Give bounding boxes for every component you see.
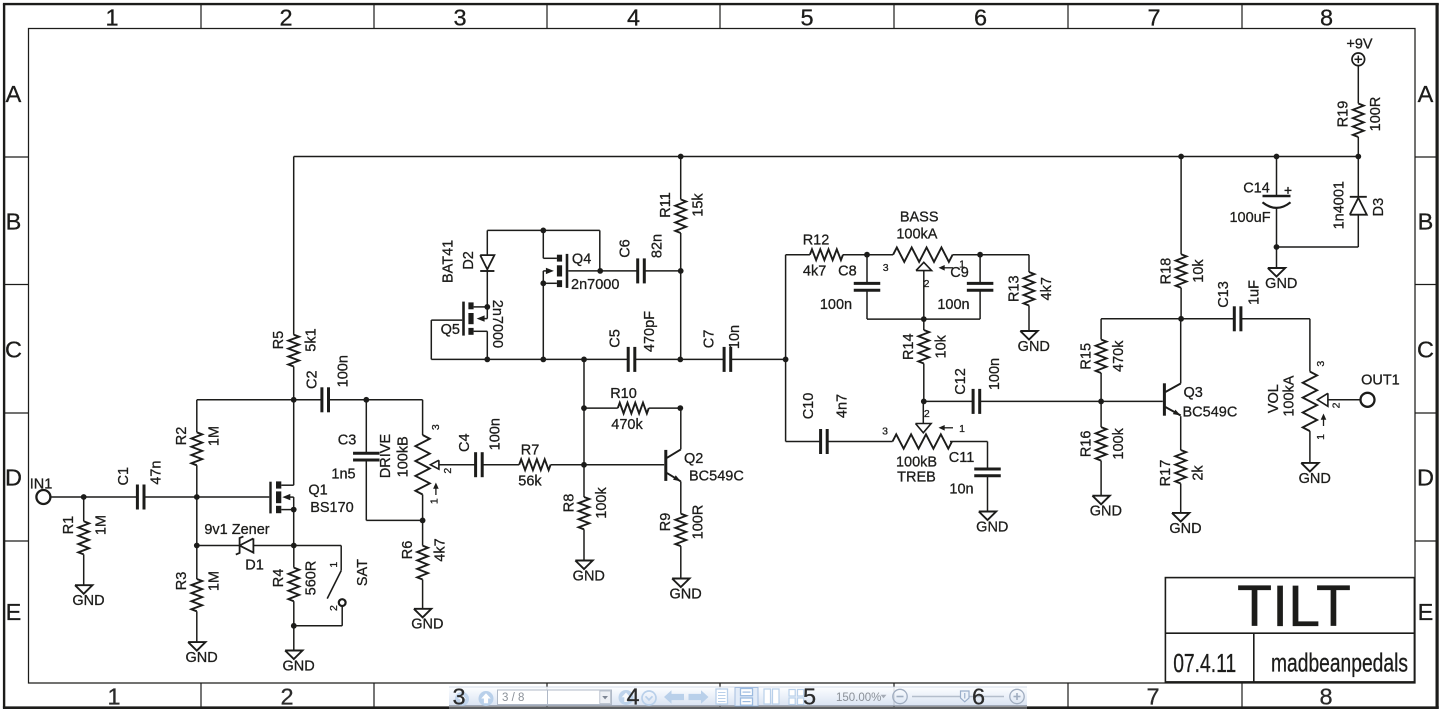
svg-text:GND: GND bbox=[669, 586, 701, 602]
wire C11 branch bbox=[987, 442, 989, 512]
svg-text:4n7: 4n7 bbox=[835, 394, 851, 418]
ground bbox=[1018, 331, 1050, 355]
ground bbox=[185, 642, 217, 666]
svg-text:madbeanpedals: madbeanpedals bbox=[1271, 647, 1408, 677]
svg-text:1: 1 bbox=[105, 5, 118, 31]
wire R4 bottom to ground bbox=[293, 626, 295, 651]
svg-text:100n: 100n bbox=[487, 418, 503, 450]
node rail right corner dot bbox=[1355, 154, 1361, 160]
wire main signal bus bbox=[431, 358, 785, 360]
wire down to zener row bbox=[196, 497, 198, 546]
capacitor C6 82n bbox=[617, 234, 665, 284]
node R10 dots bbox=[581, 405, 683, 411]
potentiometer BASS 100kA bbox=[867, 210, 980, 320]
svg-text:2n7000: 2n7000 bbox=[489, 300, 505, 348]
svg-text:C: C bbox=[5, 337, 22, 363]
node C2 left dot bbox=[291, 397, 297, 403]
resistor R5 5k1 bbox=[271, 157, 319, 400]
svg-text:3: 3 bbox=[452, 683, 465, 709]
svg-text:GND: GND bbox=[1169, 521, 1201, 537]
svg-text:C10: C10 bbox=[801, 393, 817, 420]
svg-text:R9: R9 bbox=[658, 513, 674, 532]
svg-text:R2: R2 bbox=[174, 427, 190, 446]
potentiometer DRIVE 100kB bbox=[378, 424, 476, 520]
capacitor C3 1n5 bbox=[331, 432, 379, 482]
svg-text:47n: 47n bbox=[149, 461, 165, 485]
svg-text:1: 1 bbox=[328, 562, 340, 568]
resistor R14 10k bbox=[901, 319, 949, 401]
svg-text:OUT1: OUT1 bbox=[1361, 372, 1400, 388]
capacitor C5 470pF bbox=[607, 311, 658, 372]
svg-text:2: 2 bbox=[1331, 402, 1343, 408]
svg-text:E: E bbox=[6, 599, 22, 625]
svg-text:150.00%: 150.00% bbox=[836, 692, 881, 704]
svg-text:7: 7 bbox=[1146, 683, 1159, 709]
node Q5 source bus dot bbox=[484, 357, 490, 363]
svg-text:C6: C6 bbox=[617, 239, 633, 258]
resistor R9 100R bbox=[658, 505, 706, 579]
ground bbox=[1265, 268, 1297, 292]
svg-text:470k: 470k bbox=[611, 417, 643, 433]
svg-text:R13: R13 bbox=[1006, 275, 1022, 302]
svg-text:C2: C2 bbox=[304, 370, 320, 389]
ground bbox=[411, 609, 443, 633]
resistor R2 1M bbox=[174, 400, 222, 497]
node R15 bottom dot bbox=[1098, 399, 1104, 405]
ground bbox=[1090, 496, 1122, 520]
ground bbox=[282, 651, 314, 675]
resistor R3 1M bbox=[174, 546, 222, 643]
potentiometer TREB 100kB bbox=[882, 401, 987, 485]
svg-text:Q2: Q2 bbox=[684, 451, 703, 467]
wire base column bbox=[583, 359, 585, 464]
svg-text:3: 3 bbox=[883, 262, 889, 274]
svg-text:4k7: 4k7 bbox=[1039, 277, 1055, 300]
svg-text:Q5: Q5 bbox=[441, 322, 460, 338]
svg-text:15k: 15k bbox=[691, 193, 707, 217]
svg-text:C14: C14 bbox=[1243, 180, 1270, 196]
svg-text:82n: 82n bbox=[650, 234, 666, 258]
svg-text:R6: R6 bbox=[400, 541, 416, 560]
svg-text:100kA: 100kA bbox=[896, 226, 937, 242]
wire Q1 drain up / source down bbox=[293, 400, 295, 546]
pdf toolbar bbox=[449, 687, 1027, 709]
svg-text:C: C bbox=[1417, 337, 1434, 363]
svg-text:R11: R11 bbox=[658, 192, 674, 218]
wire R13 branch bbox=[980, 254, 1029, 256]
svg-text:D1: D1 bbox=[245, 557, 264, 573]
frame column labels top bbox=[105, 5, 1333, 31]
svg-text:R16: R16 bbox=[1079, 431, 1095, 458]
svg-text:2: 2 bbox=[280, 683, 293, 709]
svg-text:Q3: Q3 bbox=[1184, 385, 1203, 401]
svg-text:07.4.11: 07.4.11 bbox=[1173, 648, 1236, 678]
svg-text:GND: GND bbox=[1265, 276, 1297, 292]
svg-text:5: 5 bbox=[800, 5, 813, 31]
wire Q3 collector emitter bbox=[1180, 319, 1182, 450]
resistor R13 4k7 bbox=[1006, 255, 1054, 331]
capacitor C11 10n bbox=[949, 450, 1001, 498]
connector IN1 bbox=[30, 477, 53, 505]
resistor R18 10k bbox=[1159, 157, 1207, 319]
wire top sub-rail above Q4 bbox=[487, 230, 600, 271]
svg-text:R4: R4 bbox=[271, 569, 287, 588]
svg-text:R8: R8 bbox=[561, 494, 577, 513]
svg-text:DRIVE: DRIVE bbox=[378, 434, 394, 479]
svg-text:1M: 1M bbox=[94, 515, 110, 535]
svg-text:GND: GND bbox=[185, 650, 217, 666]
capacitor C10 4n7 bbox=[801, 393, 851, 454]
svg-text:R12: R12 bbox=[803, 233, 830, 249]
svg-text:R5: R5 bbox=[271, 331, 287, 350]
wire Q2 base row bbox=[584, 464, 664, 466]
svg-text:R18: R18 bbox=[1159, 258, 1175, 285]
svg-text:GND: GND bbox=[72, 593, 104, 609]
svg-text:4: 4 bbox=[627, 5, 640, 31]
svg-text:C9: C9 bbox=[950, 265, 969, 281]
svg-text:3 / 8: 3 / 8 bbox=[502, 692, 524, 704]
svg-text:TREB: TREB bbox=[897, 469, 936, 485]
svg-text:1M: 1M bbox=[207, 426, 223, 446]
svg-text:BC549C: BC549C bbox=[1183, 404, 1238, 420]
wire C12 row bbox=[924, 400, 1163, 402]
svg-text:3: 3 bbox=[882, 426, 888, 438]
svg-text:100kA: 100kA bbox=[1282, 375, 1298, 416]
node zener right dot bbox=[291, 543, 297, 549]
svg-text:C8: C8 bbox=[838, 264, 857, 280]
svg-text:C11: C11 bbox=[949, 450, 975, 466]
svg-text:5k1: 5k1 bbox=[304, 328, 320, 351]
node input junction dots bbox=[81, 494, 200, 500]
svg-text:GND: GND bbox=[411, 617, 443, 633]
node R18 bottom dot bbox=[1178, 316, 1184, 322]
svg-text:4k7: 4k7 bbox=[803, 264, 826, 280]
wire collector row bbox=[1101, 319, 1310, 372]
svg-text:+9V: +9V bbox=[1346, 36, 1373, 52]
node R12 right dot bbox=[864, 252, 870, 258]
svg-text:5: 5 bbox=[803, 683, 816, 709]
svg-text:C5: C5 bbox=[607, 329, 623, 348]
wire C10 branch bbox=[786, 441, 893, 443]
transistor Q2 BC549C bbox=[666, 449, 744, 484]
svg-text:A: A bbox=[6, 81, 22, 107]
node base row dot bbox=[581, 462, 587, 468]
svg-text:BASS: BASS bbox=[900, 210, 939, 226]
transistor Q1 BS170 bbox=[271, 481, 354, 515]
node BASS bottom dot bbox=[921, 316, 927, 322]
capacitor C12 100n bbox=[953, 358, 1003, 414]
node C6 right dot bbox=[678, 268, 684, 274]
svg-text:1M: 1M bbox=[207, 571, 223, 591]
svg-text:C13: C13 bbox=[1216, 281, 1232, 308]
svg-text:R19: R19 bbox=[1336, 101, 1352, 128]
svg-text:2: 2 bbox=[328, 605, 340, 611]
svg-text:C1: C1 bbox=[116, 467, 132, 486]
supply +9V bbox=[1346, 36, 1373, 65]
svg-text:2: 2 bbox=[279, 5, 292, 31]
ground bbox=[1299, 463, 1331, 487]
resistor R8 100k bbox=[561, 465, 609, 561]
node Q4 source dot bbox=[540, 280, 546, 286]
wire C8 C9 leads bbox=[867, 255, 980, 319]
frame column labels bottom bbox=[107, 683, 1332, 709]
svg-text:D2: D2 bbox=[461, 251, 477, 270]
resistor R15 470k bbox=[1079, 319, 1127, 402]
connector OUT1 bbox=[1361, 372, 1400, 407]
wire C14 to ground bbox=[1276, 247, 1278, 268]
svg-text:SAT: SAT bbox=[355, 559, 371, 586]
svg-text:R14: R14 bbox=[901, 333, 917, 360]
svg-text:8: 8 bbox=[1319, 683, 1332, 709]
svg-text:E: E bbox=[1418, 599, 1434, 625]
node BASS right dot bbox=[977, 252, 983, 258]
svg-text:GND: GND bbox=[976, 519, 1008, 535]
wire C4 to R7 bbox=[482, 464, 519, 466]
svg-text:BC549C: BC549C bbox=[689, 468, 744, 484]
svg-text:GND: GND bbox=[1018, 339, 1050, 355]
svg-text:470pF: 470pF bbox=[642, 311, 658, 352]
resistor R6 4k7 bbox=[400, 520, 448, 608]
svg-text:B: B bbox=[6, 209, 22, 235]
transistor Q5 2n7000 bbox=[431, 300, 505, 360]
svg-text:100k: 100k bbox=[594, 487, 610, 519]
diode D3 1n4001 bbox=[1277, 157, 1387, 248]
svg-text:GND: GND bbox=[282, 658, 314, 674]
ground bbox=[976, 512, 1008, 536]
wire C7 node vertical bbox=[785, 255, 787, 442]
capacitor C2 100n bbox=[304, 355, 351, 412]
svg-text:100R: 100R bbox=[1368, 97, 1384, 132]
svg-text:GND: GND bbox=[1090, 504, 1122, 520]
svg-text:2: 2 bbox=[924, 278, 930, 290]
node Q5 drain dot bbox=[484, 304, 490, 310]
svg-text:Q1: Q1 bbox=[308, 482, 327, 498]
svg-text:4k7: 4k7 bbox=[432, 538, 448, 561]
diode D2 BAT41 bbox=[441, 230, 495, 307]
svg-text:10k: 10k bbox=[1191, 259, 1207, 283]
resistor R17 2k bbox=[1158, 450, 1206, 513]
svg-text:R3: R3 bbox=[174, 572, 190, 591]
svg-text:R1: R1 bbox=[61, 516, 77, 535]
wire Q2 collector bbox=[680, 408, 682, 449]
svg-text:10n: 10n bbox=[949, 481, 973, 497]
svg-text:B: B bbox=[1418, 209, 1434, 235]
svg-text:2: 2 bbox=[442, 468, 454, 474]
wire input row bbox=[50, 496, 269, 498]
svg-text:100n: 100n bbox=[987, 358, 1003, 390]
svg-text:100uF: 100uF bbox=[1229, 210, 1270, 226]
svg-text:TILT: TILT bbox=[1237, 574, 1351, 639]
svg-text:6: 6 bbox=[974, 5, 987, 31]
capacitor C13 1uF bbox=[1216, 280, 1262, 331]
node Q1 source dot bbox=[291, 507, 297, 513]
svg-text:C12: C12 bbox=[953, 368, 969, 395]
svg-text:D3: D3 bbox=[1371, 198, 1387, 217]
svg-text:A: A bbox=[1418, 81, 1434, 107]
capacitor C7 10n bbox=[702, 325, 743, 372]
capacitor C4 100n bbox=[457, 418, 503, 477]
svg-text:7: 7 bbox=[1147, 5, 1160, 31]
transistor Q3 BC549C bbox=[1164, 383, 1237, 420]
svg-text:1: 1 bbox=[959, 423, 965, 435]
svg-text:BAT41: BAT41 bbox=[441, 240, 457, 283]
node DRIVE bottom dot bbox=[420, 518, 426, 524]
node C14 dots bbox=[1274, 154, 1280, 250]
svg-text:56k: 56k bbox=[518, 474, 542, 490]
svg-text:8: 8 bbox=[1320, 5, 1333, 31]
node zener row left dot bbox=[194, 543, 200, 549]
svg-text:100kB: 100kB bbox=[396, 436, 412, 477]
svg-text:3: 3 bbox=[1315, 361, 1327, 367]
node TREB wiper dot bbox=[921, 399, 927, 405]
capacitor C14 100uF electrolytic bbox=[1229, 157, 1291, 248]
wire R11 bottom to bus bbox=[680, 271, 682, 360]
node R4 bottom dot bbox=[291, 623, 297, 629]
svg-text:1: 1 bbox=[1315, 434, 1327, 440]
svg-text:D: D bbox=[1417, 465, 1434, 491]
svg-text:Q4: Q4 bbox=[572, 252, 591, 268]
svg-text:1n4001: 1n4001 bbox=[1332, 181, 1348, 229]
svg-text:2n7000: 2n7000 bbox=[571, 277, 619, 293]
ground bbox=[72, 585, 104, 609]
svg-text:C7: C7 bbox=[702, 330, 718, 349]
title block bbox=[1165, 574, 1414, 682]
resistor R11 15k bbox=[658, 157, 706, 271]
svg-text:R15: R15 bbox=[1079, 343, 1095, 370]
resistor R19 100R bbox=[1336, 66, 1384, 157]
resistor R7 56k bbox=[518, 443, 584, 490]
svg-text:R10: R10 bbox=[610, 386, 637, 402]
node bus mid dots bbox=[581, 357, 788, 363]
svg-text:6: 6 bbox=[972, 683, 985, 709]
potentiometer VOL 100kA bbox=[1266, 361, 1361, 463]
wire Q2 emitter down bbox=[680, 481, 682, 513]
capacitor C9 100n bbox=[937, 265, 993, 313]
svg-text:1: 1 bbox=[107, 683, 120, 709]
svg-text:1: 1 bbox=[429, 498, 441, 504]
svg-text:R17: R17 bbox=[1158, 460, 1174, 487]
capacitor C1 47n bbox=[116, 461, 165, 510]
wire top rail bbox=[294, 156, 1359, 158]
switch SAT bbox=[294, 546, 371, 626]
svg-text:VOL: VOL bbox=[1266, 384, 1282, 413]
svg-text:100n: 100n bbox=[820, 297, 852, 313]
resistor R16 100k bbox=[1079, 401, 1127, 495]
svg-text:GND: GND bbox=[1299, 471, 1331, 487]
svg-text:2: 2 bbox=[924, 408, 930, 420]
node C3 top dot bbox=[363, 397, 369, 403]
svg-text:100n: 100n bbox=[937, 297, 969, 313]
svg-text:470k: 470k bbox=[1111, 340, 1127, 372]
frame row labels bbox=[5, 81, 1434, 625]
svg-text:100n: 100n bbox=[335, 355, 351, 387]
wire C2 row from R2 top bbox=[197, 400, 423, 435]
svg-text:560R: 560R bbox=[304, 561, 320, 596]
node sub-rail dot bbox=[540, 228, 546, 234]
svg-text:2k: 2k bbox=[1191, 465, 1207, 481]
zener diode D1 9v1 bbox=[197, 522, 294, 573]
svg-text:10k: 10k bbox=[934, 334, 950, 358]
svg-text:3: 3 bbox=[453, 5, 466, 31]
svg-text:100kB: 100kB bbox=[896, 455, 937, 471]
ground bbox=[573, 561, 605, 585]
resistor R1 1M bbox=[61, 497, 109, 585]
svg-text:BS170: BS170 bbox=[310, 500, 354, 516]
resistor R10 470k bbox=[584, 386, 680, 433]
svg-text:100R: 100R bbox=[691, 505, 707, 540]
resistor R4 560R bbox=[271, 546, 319, 626]
svg-text:GND: GND bbox=[573, 568, 605, 584]
wire C3 branch bbox=[366, 400, 422, 521]
node Q4 source bus dot bbox=[540, 357, 546, 363]
svg-text:1n5: 1n5 bbox=[331, 466, 355, 482]
node bus R11 dot bbox=[677, 357, 683, 363]
svg-text:C3: C3 bbox=[338, 432, 357, 448]
svg-text:100k: 100k bbox=[1111, 427, 1127, 459]
node Q4 gate dot bbox=[597, 268, 603, 274]
svg-text:1uF: 1uF bbox=[1247, 280, 1263, 305]
node rail R11 dot bbox=[678, 154, 684, 160]
svg-text:10n: 10n bbox=[727, 325, 743, 349]
ground bbox=[1169, 513, 1201, 537]
svg-text:D: D bbox=[5, 465, 22, 491]
wire C6 leads bbox=[600, 270, 681, 272]
svg-text:9v1 Zener: 9v1 Zener bbox=[204, 522, 269, 538]
capacitor C8 100n bbox=[820, 264, 880, 313]
svg-text:C4: C4 bbox=[457, 433, 473, 452]
svg-text:R7: R7 bbox=[521, 443, 540, 459]
svg-text:3: 3 bbox=[430, 424, 442, 430]
transistor Q4 2n7000 bbox=[543, 230, 619, 359]
ground bbox=[669, 579, 701, 603]
node rail R18 dot bbox=[1178, 154, 1184, 160]
svg-text:4: 4 bbox=[626, 683, 639, 709]
resistor R12 4k7 bbox=[786, 233, 867, 280]
svg-text:IN1: IN1 bbox=[30, 477, 53, 493]
